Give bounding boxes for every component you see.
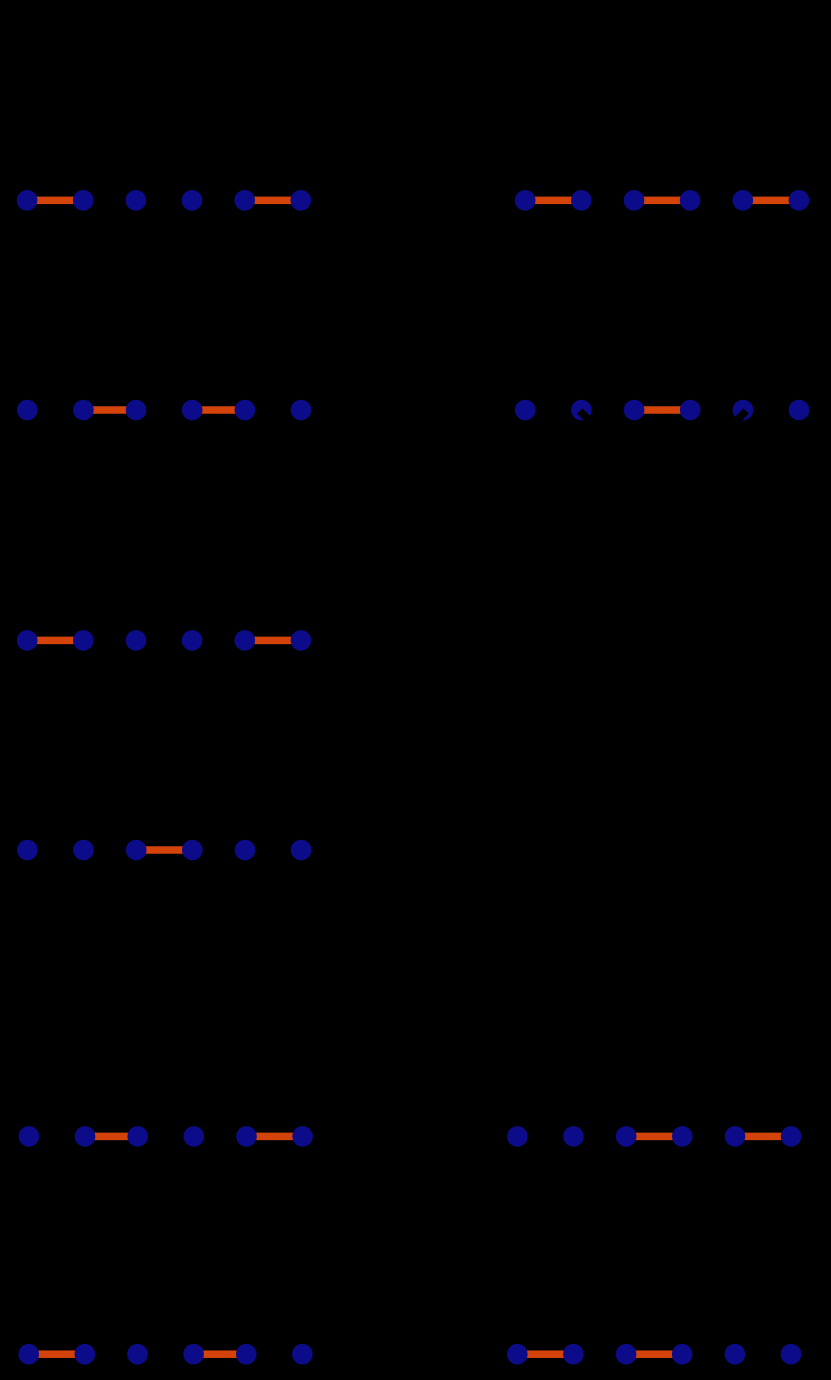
- node row4 left site 1: [17, 840, 38, 861]
- node row6 right site 6: [781, 1344, 802, 1365]
- node row5 left site 6: [292, 1126, 313, 1147]
- bond row2 left sites 4-5: [192, 406, 245, 414]
- black overlay band on row2 right site 5: [721, 408, 749, 436]
- node row1 right site 3: [624, 190, 645, 211]
- bond row1 right sites 3-4: [634, 197, 690, 205]
- bond row5 right sites 3-4: [626, 1133, 682, 1141]
- node row2 right site 5: [733, 400, 754, 421]
- bond row1 left sites 1-2: [27, 197, 83, 205]
- node row2 right site 3: [624, 400, 645, 421]
- node row6 right site 3: [616, 1344, 637, 1365]
- node row1 left site 1: [17, 190, 38, 211]
- node row1 left site 2: [73, 190, 94, 211]
- node row2 right site 2: [571, 400, 592, 421]
- node row5 right site 5: [725, 1126, 746, 1147]
- bond row6 right sites 1-2: [517, 1350, 573, 1358]
- node row1 right site 6: [789, 190, 810, 211]
- node row2 left site 3: [126, 400, 147, 421]
- node row1 right site 4: [680, 190, 701, 211]
- node row6 right site 4: [672, 1344, 693, 1365]
- bond row6 right sites 3-4: [626, 1350, 682, 1358]
- node row5 left site 2: [75, 1126, 96, 1147]
- node row4 left site 6: [291, 840, 312, 861]
- node row6 right site 1: [507, 1344, 528, 1365]
- bond row5 left sites 5-6: [247, 1133, 303, 1141]
- node row1 right site 5: [733, 190, 754, 211]
- node row4 left site 4: [182, 840, 203, 861]
- node row1 right site 2: [571, 190, 592, 211]
- node row2 right site 4: [680, 400, 701, 421]
- node row6 left site 2: [75, 1344, 96, 1365]
- node row6 right site 5: [725, 1344, 746, 1365]
- node row1 left site 3: [126, 190, 147, 211]
- node row1 left site 4: [182, 190, 203, 211]
- node row3 left site 4: [182, 630, 203, 651]
- bond row6 left sites 4-5: [194, 1350, 247, 1358]
- node row3 left site 3: [126, 630, 147, 651]
- node row2 left site 6: [291, 400, 312, 421]
- bond row1 right sites 5-6: [743, 197, 799, 205]
- bond row5 right sites 5-6: [735, 1133, 791, 1141]
- node row5 left site 4: [184, 1126, 205, 1147]
- node row2 right site 1: [515, 400, 536, 421]
- node row6 left site 6: [292, 1344, 313, 1365]
- node row5 right site 1: [507, 1126, 528, 1147]
- bond row3 left sites 1-2: [27, 637, 83, 645]
- node row4 left site 2: [73, 840, 94, 861]
- node row1 left site 6: [291, 190, 312, 211]
- node row4 left site 5: [235, 840, 256, 861]
- bond row1 right sites 1-2: [525, 197, 581, 205]
- node row5 right site 2: [563, 1126, 584, 1147]
- node row6 right site 2: [563, 1344, 584, 1365]
- node row6 left site 1: [18, 1344, 39, 1365]
- node row3 left site 6: [291, 630, 312, 651]
- node row5 left site 3: [127, 1126, 148, 1147]
- node row5 right site 3: [616, 1126, 637, 1147]
- node row2 left site 4: [182, 400, 203, 421]
- node row2 left site 1: [17, 400, 38, 421]
- node row1 left site 5: [234, 190, 255, 211]
- black overlay band on row2 right site 2: [577, 408, 605, 436]
- node row5 left site 5: [236, 1126, 257, 1147]
- node row6 left site 3: [127, 1344, 148, 1365]
- node row1 right site 1: [515, 190, 536, 211]
- node row3 left site 5: [235, 630, 256, 651]
- node row5 right site 4: [672, 1126, 693, 1147]
- node row4 left site 3: [126, 840, 147, 861]
- bond row6 left sites 1-2: [29, 1350, 85, 1358]
- node row5 right site 6: [781, 1126, 802, 1147]
- bond row2 right sites 3-4: [634, 406, 690, 414]
- node row2 left site 2: [73, 400, 94, 421]
- node row6 left site 4: [183, 1344, 204, 1365]
- bond row3 left sites 5-6: [245, 637, 301, 645]
- node row2 left site 5: [235, 400, 256, 421]
- node row3 left site 1: [17, 630, 38, 651]
- bond row1 left sites 5-6: [245, 197, 301, 205]
- node row3 left site 2: [73, 630, 94, 651]
- bond row5 left sites 2-3: [85, 1133, 138, 1141]
- node row5 left site 1: [19, 1126, 40, 1147]
- bond row4 left sites 3-4: [136, 846, 192, 854]
- bond row2 left sites 2-3: [83, 406, 136, 414]
- node row6 left site 5: [236, 1344, 257, 1365]
- node row2 right site 6: [789, 400, 810, 421]
